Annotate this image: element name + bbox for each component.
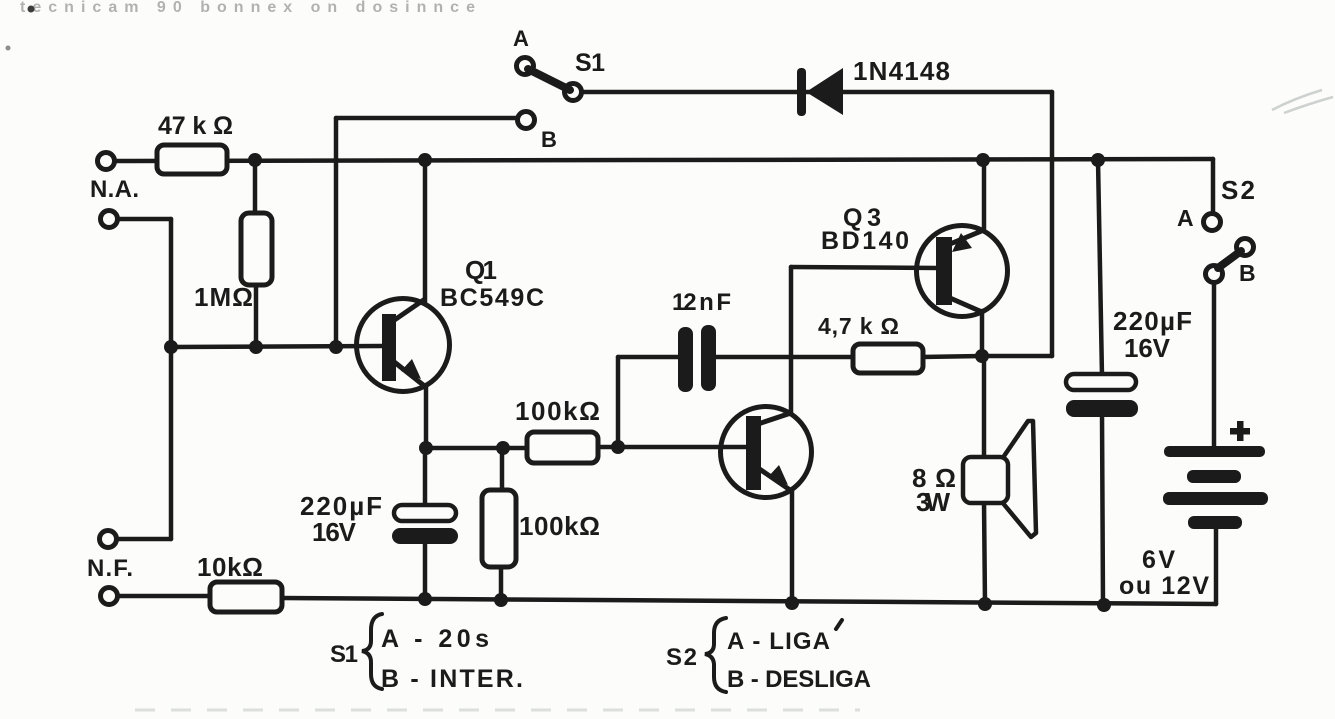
svg-text:BC549C: BC549C [440,284,544,312]
svg-text:16V: 16V [1124,333,1171,363]
svg-text:N.F.: N.F. [87,555,133,582]
svg-text:tecnicam 90 bonnex on dosi: tecnicam 90 bonnex on dosinnce [20,0,475,16]
svg-text:A: A [1177,205,1194,231]
svg-text:100kΩ: 100kΩ [519,511,600,541]
svg-text:S2: S2 [1221,175,1255,205]
svg-text:10kΩ: 10kΩ [197,552,263,582]
svg-text:3W: 3W [916,487,950,517]
svg-text:S1: S1 [330,641,358,668]
svg-text:47 k Ω: 47 k Ω [158,112,233,140]
svg-text:1N4148: 1N4148 [853,56,950,86]
svg-text:Q1: Q1 [465,255,497,285]
svg-text:S1: S1 [575,49,605,77]
svg-text:BD140: BD140 [821,227,909,255]
svg-text:100kΩ: 100kΩ [515,396,600,426]
svg-text:A - LIGA: A - LIGA [727,628,830,655]
svg-text:B: B [541,127,557,152]
svg-text:16V: 16V [312,517,357,547]
svg-text:A - 20s: A - 20s [381,625,489,653]
svg-text:6V: 6V [1142,546,1175,574]
svg-text:S2: S2 [666,644,697,671]
svg-text:12 n F: 12 n F [672,289,731,316]
svg-text:B - INTER.: B - INTER. [381,665,523,693]
svg-text:B - DESLIGA: B - DESLIGA [727,666,871,693]
svg-text:B: B [1239,260,1256,286]
svg-text:1MΩ: 1MΩ [194,282,253,312]
svg-text:A: A [513,26,529,51]
svg-text:ou 12V: ou 12V [1119,572,1209,600]
svg-text:220µF: 220µF [1113,306,1192,336]
svg-text:N.A.: N.A. [90,176,139,203]
svg-text:4,7 k Ω: 4,7 k Ω [818,313,899,339]
